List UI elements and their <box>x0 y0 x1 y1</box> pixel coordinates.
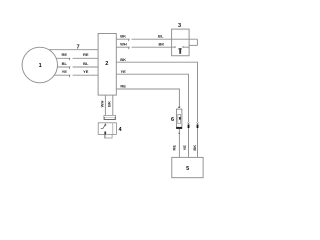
svg-text:BK: BK <box>120 34 126 39</box>
svg-text:3: 3 <box>178 23 181 29</box>
svg-text:BL: BL <box>62 61 68 66</box>
svg-text:1: 1 <box>39 63 42 69</box>
svg-text:6: 6 <box>171 117 174 123</box>
svg-text:WH: WH <box>120 42 127 47</box>
svg-text:RE: RE <box>120 84 126 89</box>
svg-text:RE: RE <box>62 52 68 57</box>
svg-text:BK: BK <box>159 42 165 47</box>
svg-text:2: 2 <box>105 61 108 67</box>
svg-text:BK: BK <box>106 101 111 107</box>
svg-text:YE: YE <box>62 69 68 74</box>
svg-text:BL: BL <box>83 61 89 66</box>
svg-text:7: 7 <box>76 44 79 50</box>
svg-text:YE: YE <box>83 69 89 74</box>
svg-text:BK: BK <box>120 57 126 62</box>
svg-text:WH: WH <box>100 101 105 108</box>
svg-text:BK: BK <box>192 145 197 151</box>
svg-text:RE: RE <box>172 145 177 151</box>
svg-text:YE: YE <box>182 145 187 151</box>
svg-text:5: 5 <box>186 166 189 172</box>
svg-text:BL: BL <box>158 34 164 39</box>
svg-text:RE: RE <box>83 52 89 57</box>
svg-text:YE: YE <box>121 69 127 74</box>
